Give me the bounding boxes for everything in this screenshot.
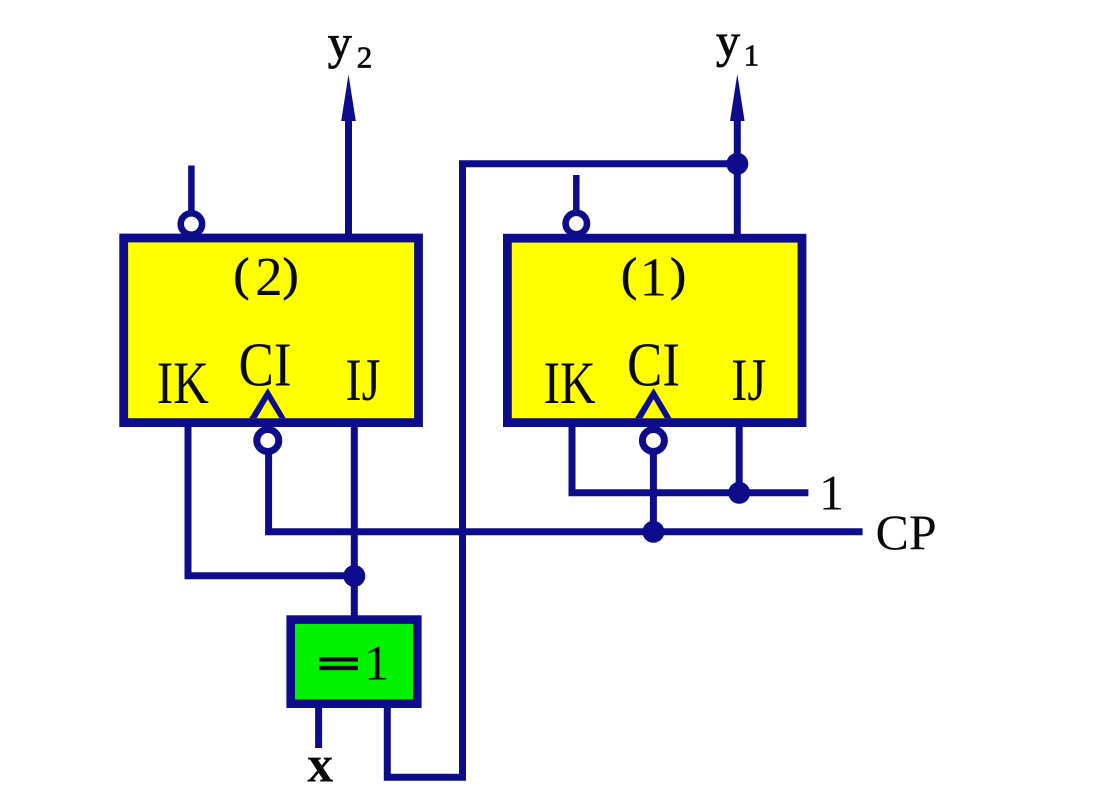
FF1 CI inversion bubble (642, 430, 664, 452)
svg-text:IJ: IJ (731, 347, 766, 413)
node: y1 junction dot (726, 153, 748, 175)
node: XOR input junction dot (343, 565, 365, 587)
XOR gate body =1 (291, 620, 418, 704)
svg-text:(: ( (621, 249, 637, 301)
node: junction dot FF1 IJ / 1-line (728, 482, 750, 504)
wire: FF1 IJ pin down to 1-line (736, 425, 743, 493)
wire: FF2 IK pin down and right to XOR junction (188, 425, 354, 576)
svg-text:y: y (328, 17, 352, 70)
arrowhead y2 (341, 75, 356, 122)
wire: FF2 IJ pin down through junction into XOR top (351, 425, 358, 617)
wire: y1 output vertical (734, 118, 741, 238)
svg-text:CP: CP (876, 504, 937, 560)
svg-text:IJ: IJ (346, 347, 381, 413)
flip-flop U2 body (124, 238, 419, 423)
flip-flop U1 body (507, 238, 802, 422)
wire: FF2 CI line down then CP horizontal line (269, 448, 863, 532)
svg-text:2: 2 (255, 246, 283, 307)
svg-text:1: 1 (744, 38, 760, 73)
svg-text:): ) (670, 249, 686, 301)
wire: XOR x-input pin (315, 704, 322, 748)
svg-text:CI: CI (627, 332, 680, 400)
wire: FF1 top stub (573, 175, 580, 214)
svg-text:IK: IK (544, 350, 596, 416)
node: CP junction dot at FF1 CI (642, 521, 664, 543)
svg-text:1: 1 (364, 634, 389, 690)
svg-text:x: x (307, 736, 333, 793)
wire: y2 output vertical (345, 118, 352, 236)
FF1 clock triangle (635, 388, 671, 418)
svg-text:2: 2 (357, 39, 373, 74)
svg-text:(: ( (234, 249, 250, 301)
svg-text:1: 1 (639, 246, 667, 307)
svg-text:IK: IK (157, 350, 209, 416)
FF2 top inversion bubble (181, 213, 202, 234)
wire: FF1 IK pin down and right to logic-1 stub (572, 425, 808, 493)
FF2 CI inversion bubble (257, 430, 279, 452)
svg-text:y: y (716, 15, 740, 68)
label =1 inside XOR : equals drawn as bars (319, 657, 358, 661)
wire: FF2 top stub (188, 166, 195, 216)
wire: FF1 CI line down to CP (650, 448, 657, 532)
FF2 clock triangle (249, 388, 285, 418)
wire: y1 feedback loop (y1 node to XOR input B) (387, 164, 737, 778)
svg-text:1: 1 (819, 465, 844, 521)
svg-text:CI: CI (239, 332, 292, 400)
arrowhead y1 (730, 74, 745, 121)
svg-text:): ) (283, 249, 299, 301)
FF1 top inversion bubble (566, 213, 587, 234)
